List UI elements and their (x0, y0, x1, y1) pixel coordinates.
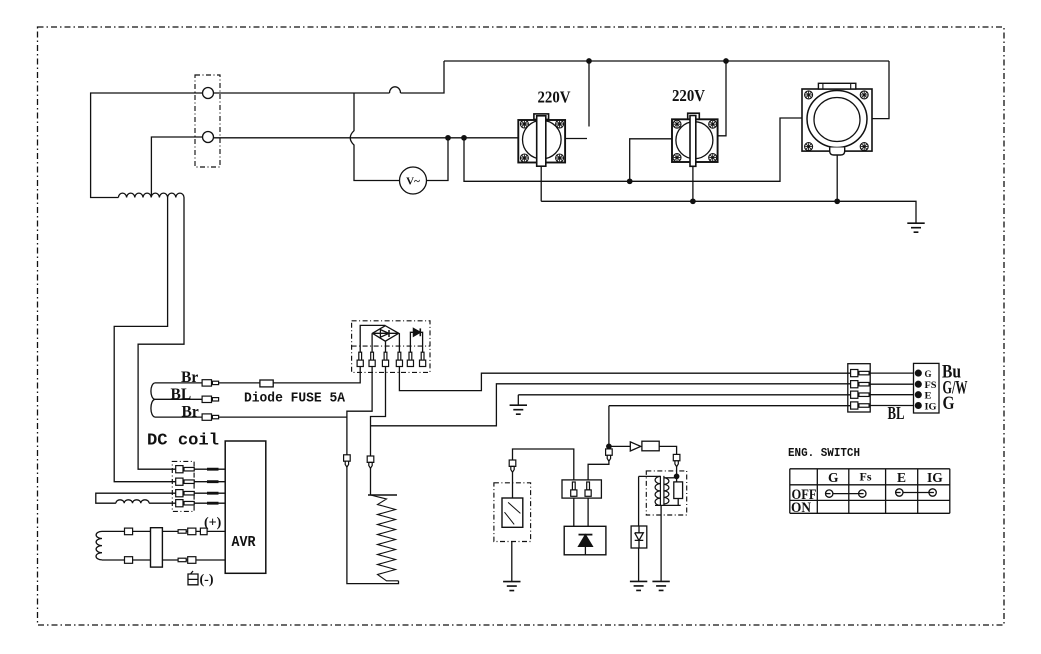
connector pin 4 (176, 500, 195, 507)
wire voltmeter right branch (427, 138, 449, 181)
wire secondary top lead (664, 477, 677, 479)
svg-text:BL: BL (171, 386, 192, 403)
stop box pin B (585, 482, 591, 496)
node earth bus r2 (691, 199, 695, 203)
wire pin2 to AVR (195, 481, 226, 483)
spark plug resistor (674, 482, 683, 499)
connector Br1 (202, 380, 219, 386)
wire pin4 to G line (399, 367, 851, 391)
SECTION-TOP (96, 198, 360, 588)
wire receptacle 2 earth pin down (692, 166, 694, 201)
connector oil sensor (509, 460, 516, 472)
SECTION-MID (609, 362, 968, 591)
node A (446, 136, 450, 140)
wire IG to switch strip (869, 405, 913, 407)
wire terminal B to receptacle 1 (214, 137, 519, 139)
switch terminal strip (914, 363, 940, 413)
svg-text:E: E (925, 392, 932, 402)
svg-text:220V: 220V (672, 86, 706, 105)
connector Br2 (202, 414, 219, 420)
spark arrester unit (631, 526, 647, 548)
svg-text:G: G (925, 370, 933, 380)
svg-text:Fs: Fs (860, 470, 872, 484)
rectifier pin 6 (420, 352, 426, 366)
wire primary top lead (639, 475, 661, 477)
wire BL tap (155, 398, 202, 400)
wire branch up to receptacle 2 left (630, 139, 672, 182)
wire breaker to top rail (401, 61, 445, 93)
wire suppressor to ignition connector (659, 446, 676, 454)
ignition coil T1 (655, 476, 669, 506)
wire IG line (609, 405, 851, 407)
svg-text:Br: Br (182, 403, 199, 420)
svg-text:(-): (-) (200, 573, 214, 588)
wire live distribution to receptacles 2,3 (464, 118, 802, 181)
diode D3 (stop) (630, 442, 641, 451)
ground (arrester) (630, 581, 647, 590)
bridge rectifier D1 (372, 326, 398, 342)
connector on pin3 drop (367, 456, 374, 468)
wire pin3 to AVR (195, 492, 226, 494)
wire pin3 to resistor top (371, 367, 386, 495)
wire FS to switch strip (869, 383, 913, 385)
svg-text:IG: IG (925, 402, 938, 412)
harness pin G (851, 370, 870, 377)
terminal dot IG (915, 403, 921, 409)
harness pin IG (851, 402, 870, 409)
harness pin E (851, 391, 870, 398)
harness pin FS (851, 381, 870, 388)
wire colour dashes (207, 469, 219, 503)
node on rail x726 (724, 59, 728, 63)
wire E to switch strip (869, 394, 913, 396)
wire receptacle 1 earth pin down (540, 166, 542, 201)
connector on + lead (125, 528, 133, 535)
label 白(-) (188, 571, 214, 588)
rectifier pin 4 (396, 352, 402, 366)
stop unit connector box (562, 480, 601, 498)
rectifier pin 5 (407, 352, 413, 366)
svg-text:G: G (828, 470, 839, 485)
svg-text:ON: ON (791, 500, 811, 516)
fuse holder F1 (151, 528, 163, 567)
terminal B (203, 132, 214, 143)
wire G to switch strip (869, 372, 913, 374)
harness connector block (848, 364, 870, 412)
terminal dot G (915, 370, 921, 376)
wire to stop box pin B (588, 461, 609, 480)
oil level sensor (502, 498, 523, 527)
ignition coil housing (dashed) (646, 471, 686, 515)
wire main winding hot lead to terminal A (91, 93, 203, 198)
svg-text:220V: 220V (538, 88, 572, 107)
terminal block TB1 (195, 75, 220, 167)
rectifier unit housing (dashed) (352, 321, 430, 373)
wire charge winding + lead (102, 530, 225, 532)
wire receptacle 1 right stub (565, 138, 587, 140)
wire pin1 to bridge top (360, 325, 385, 352)
connector ignition (673, 454, 680, 466)
connector pin 3 (176, 490, 195, 497)
svg-text:AVR: AVR (232, 535, 256, 551)
wire pin2 to bridge left (371, 334, 373, 353)
wire E line (518, 394, 851, 396)
connector on IG drop (606, 449, 613, 461)
receptacle 220V #2 (672, 113, 718, 166)
terminal dot FS (915, 381, 921, 387)
circuit breaker (390, 87, 401, 93)
stop box pin A (571, 482, 577, 496)
engine switch table (790, 469, 950, 514)
wire rail to receptacle 2 right (718, 61, 726, 136)
wire Br2 to resistor bottom run (219, 416, 347, 418)
suppressor resistor (642, 441, 659, 451)
rectifier pin 3 (382, 352, 388, 366)
connector housing (dashed) (172, 461, 194, 511)
wire winding tap 2 to AVR pin1 (138, 198, 184, 470)
wire pin3 to bridge bottom (385, 341, 387, 352)
wire rail down to receptacle 3 right (872, 61, 889, 119)
svg-text:Br: Br (181, 369, 198, 386)
battery charge winding (96, 531, 102, 559)
wire connector to oil sensor unit (512, 472, 514, 498)
connector BL (202, 396, 219, 402)
wire pin A to SCR unit (573, 498, 575, 526)
diode D2 (410, 328, 422, 352)
terminal dot E (915, 392, 921, 398)
node C (628, 179, 632, 183)
connector pair on + lead (178, 528, 207, 535)
wire sense coil to pin4 (149, 502, 176, 504)
wire arrester to ground (638, 548, 640, 581)
oil sensor housing (dashed) (494, 483, 531, 542)
node stop circuit (607, 444, 611, 448)
rectifier housing mid line (352, 345, 430, 347)
top supply rail (444, 60, 889, 62)
wire oil sensor to pin A (513, 449, 574, 480)
AVR U1 (225, 441, 266, 573)
wire pin2 to resistor bottom (347, 367, 399, 584)
resistor R1 (field dump) (368, 495, 399, 581)
wire IG drop to stop circuit (608, 406, 610, 449)
node earth bus r3 (835, 199, 839, 203)
node on rail x589 (587, 59, 591, 63)
wire voltmeter left branch with hop (350, 93, 399, 181)
svg-text:Diode FUSE 5A: Diode FUSE 5A (244, 392, 346, 407)
earth bus wire (541, 201, 916, 223)
wire Br tap 2 (155, 416, 202, 418)
wire FS branch line (371, 384, 852, 426)
main AC winding L1 (118, 193, 184, 197)
ground (oil sensor) (503, 582, 520, 591)
wire pin4 to AVR (195, 502, 226, 504)
wire winding tap 1 to AVR pin2 (114, 198, 176, 482)
rectifier pin 1 (357, 352, 363, 366)
wire terminal B to main winding tap (151, 137, 202, 197)
wire Br1 to rectifier pin1 (219, 366, 361, 383)
contact E-IG (896, 489, 937, 496)
rectifier pin 2 (369, 352, 375, 366)
svg-text:(+): (+) (204, 516, 222, 531)
receptacle 220V #1 (518, 114, 565, 166)
receptacle 3 (large round) (802, 83, 872, 155)
connector on pin2 drop (344, 455, 351, 467)
wire pin B to SCR unit (587, 498, 589, 526)
svg-text:E: E (897, 470, 906, 485)
wire oil sensor to ground (511, 542, 513, 582)
wire primary lead down (638, 476, 640, 526)
wire rail stub down x589 (588, 61, 590, 127)
wire pin1 to AVR (195, 468, 226, 470)
wire terminal A to breaker (214, 92, 390, 94)
svg-text:G: G (943, 393, 955, 414)
svg-text:V~: V~ (406, 176, 420, 188)
ground (ignition coil) (652, 581, 669, 590)
svg-text:DC coil: DC coil (147, 432, 219, 451)
terminal A (203, 88, 214, 99)
wire connector to ignition coil (676, 467, 678, 482)
sense winding loop (96, 493, 176, 503)
SECTION-LEFT (344, 321, 851, 591)
ground (E line) (517, 395, 519, 405)
sense winding coil (116, 500, 149, 503)
svg-text:ENG. SWITCH: ENG. SWITCH (788, 446, 860, 460)
svg-text:BL: BL (888, 403, 905, 423)
SCR stop unit (564, 526, 606, 555)
ground (earth bus) (907, 223, 924, 232)
voltmeter V~ (400, 167, 427, 194)
charging winding (Br/BL/Br) (151, 383, 155, 417)
connector on - lead (125, 557, 133, 564)
wire ignition bottom bus (655, 499, 681, 506)
connector pin 1 (176, 466, 195, 473)
node ignition coil (674, 474, 678, 478)
wire charge winding - lead (102, 559, 225, 561)
connector pin 2 (176, 478, 195, 485)
wire Br tap 1 (155, 382, 202, 384)
connector pair on - lead (178, 557, 196, 564)
fuse 5A on Br1 (260, 380, 273, 387)
node B (462, 136, 466, 140)
svg-text:FS: FS (925, 381, 937, 391)
contact G-Fs (826, 490, 867, 497)
wire pin4 to bridge right (398, 333, 400, 352)
wire receptacle 3 pin down (836, 155, 838, 201)
wire IG node to stop diode (609, 445, 630, 447)
svg-text:IG: IG (927, 470, 943, 485)
wire ignition bus to ground (660, 505, 662, 581)
